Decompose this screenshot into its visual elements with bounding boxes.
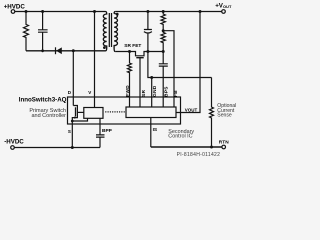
- IC package outline InnoSwitch3-AQ: [68, 97, 181, 124]
- secondary controller block U1b: [126, 107, 176, 118]
- transformer primary phase dot: [103, 46, 106, 49]
- svg-text:VOUT: VOUT: [185, 107, 198, 112]
- svg-text:SR: SR: [141, 89, 146, 96]
- svg-text:Sense: Sense: [217, 113, 232, 119]
- wire VOUT pin: [176, 12, 200, 113]
- node +HVDC terminal: [11, 10, 15, 14]
- node -HVDC terminal: [11, 146, 15, 150]
- capacitor clamp C: [38, 12, 48, 51]
- transformer secondary phase dot: [116, 13, 119, 16]
- wire SR pin: [139, 58, 141, 107]
- resistor feedback upper: [161, 12, 165, 31]
- junction dot output cap top: [146, 10, 149, 13]
- junction dot sense resistor bottom: [210, 146, 213, 149]
- svg-text:-HVDC: -HVDC: [4, 138, 24, 145]
- junction dot GND pin: [150, 76, 153, 79]
- wire top HVDC rail: [15, 11, 106, 13]
- primary controller block U1a: [84, 108, 103, 119]
- svg-text:IS: IS: [153, 127, 158, 133]
- svg-text:+VOUT: +VOUT: [215, 2, 232, 9]
- wire secondary return through SR FET: [115, 52, 163, 56]
- svg-text:Control IC: Control IC: [168, 134, 192, 140]
- svg-text:BPS: BPS: [164, 86, 169, 97]
- resistor feedback lower: [161, 31, 165, 52]
- junction dot source: [71, 120, 74, 123]
- wire top VOUT rail: [115, 11, 221, 13]
- junction dot FWD node: [128, 50, 131, 53]
- svg-text:FWD: FWD: [125, 85, 130, 97]
- junction dot V pin branch: [93, 10, 96, 13]
- svg-text:S: S: [68, 129, 71, 134]
- svg-text:RTN: RTN: [219, 140, 229, 146]
- resistor FWD: [128, 52, 132, 108]
- wire GND pin: [151, 78, 153, 108]
- resistor current sense: [210, 78, 214, 148]
- transistor Q primary MOSFET: [72, 106, 77, 122]
- capacitor output electrolytic: [144, 12, 152, 52]
- wire V pin: [94, 12, 96, 108]
- junction dot drain node: [72, 49, 75, 52]
- wire secondary GND: [148, 52, 212, 78]
- junction dot clamp resistor top: [25, 10, 28, 13]
- svg-text:and Controller: and Controller: [31, 113, 66, 119]
- wire BPP pin: [99, 118, 101, 134]
- transistor SR FET gate bar: [136, 57, 143, 59]
- svg-text:SR FET: SR FET: [124, 43, 141, 49]
- wire FB tap: [163, 31, 174, 107]
- junction dot divider top: [162, 10, 165, 13]
- junction dot clamp capacitor top: [41, 10, 44, 13]
- junction dot divider bottom BPS: [162, 50, 165, 53]
- transformer core: [109, 13, 111, 47]
- transformer T1 secondary winding: [114, 12, 117, 52]
- svg-text:BPP: BPP: [102, 128, 113, 134]
- junction dot VOUT pin branch: [199, 10, 202, 13]
- wire MOSFET body to controller: [77, 111, 83, 113]
- node +VOUT terminal: [222, 10, 226, 14]
- svg-text:GND: GND: [152, 85, 157, 97]
- junction dot clamp cap bottom: [41, 49, 44, 52]
- capacitor BPP: [96, 135, 105, 148]
- junction dot output cap bottom: [146, 50, 149, 53]
- svg-text:V: V: [88, 90, 91, 95]
- wire bottom HVDC rail: [15, 147, 101, 149]
- transformer T1 primary winding: [103, 12, 106, 51]
- junction dot S pin to rail: [71, 146, 74, 149]
- svg-text:FB: FB: [173, 90, 178, 97]
- junction dot FB tap: [162, 29, 165, 32]
- wire D pin: [72, 51, 74, 106]
- svg-text:InnoSwitch3-AQ: InnoSwitch3-AQ: [19, 96, 67, 103]
- diode clamp blocking: [55, 47, 57, 54]
- FluxLink coupling dots: [105, 111, 125, 112]
- capacitor BPS: [159, 52, 168, 108]
- wire RTN rail: [151, 146, 222, 148]
- node RTN terminal: [222, 145, 226, 149]
- resistor clamp R: [24, 12, 29, 51]
- wire clamp bottom to primary: [26, 50, 106, 52]
- svg-text:PI-8184H-011422: PI-8184H-011422: [177, 152, 221, 158]
- wire source node: [72, 118, 87, 121]
- wire IS pin: [150, 118, 152, 148]
- wire S pin: [71, 121, 73, 148]
- svg-text:+HVDC: +HVDC: [4, 3, 26, 10]
